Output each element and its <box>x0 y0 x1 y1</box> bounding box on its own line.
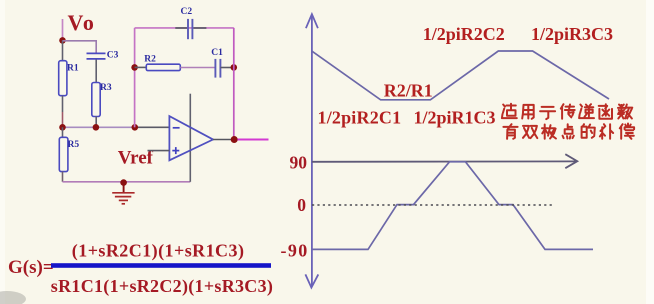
svg-text:1/2piR3C3: 1/2piR3C3 <box>531 24 613 44</box>
wire C1 to node G <box>220 67 233 69</box>
svg-text:1/2piR2C2: 1/2piR2C2 <box>423 24 505 44</box>
capacitor C3 <box>87 52 106 54</box>
svg-text:1/2piR2C1: 1/2piR2C1 <box>318 107 402 127</box>
wire R5 bottom to ground rail <box>62 172 64 182</box>
wire plus input <box>148 150 170 152</box>
phase plot horizontal axis (90 level) <box>312 154 577 168</box>
phase curve <box>312 162 593 250</box>
wire C3 to R3 <box>95 60 97 83</box>
resistor R5 <box>59 137 68 171</box>
wire inverting node line <box>63 126 136 128</box>
wire feedback left vertical <box>134 28 136 127</box>
op-amp U1 <box>169 116 213 160</box>
svg-text:90: 90 <box>290 153 308 173</box>
note text line 2 (Chinese) <box>503 124 634 139</box>
wire output right <box>238 139 269 141</box>
capacitor C2 <box>187 19 189 39</box>
svg-text:G(s)=: G(s)= <box>8 257 54 278</box>
wire node A to R1 <box>62 40 64 61</box>
node C (R3 bottom) <box>93 124 100 131</box>
wire feedback right vertical <box>233 28 235 139</box>
wire R2 to C1 <box>180 67 215 69</box>
node G (R2 row right) <box>231 64 238 71</box>
note text line 1 (Chinese) <box>502 104 632 119</box>
svg-text:R2/R1: R2/R1 <box>384 81 433 101</box>
node D (feedback left bottom) <box>132 124 139 131</box>
wire node A to C3 branch <box>63 41 97 53</box>
node E (ground junction) <box>120 179 127 186</box>
formula fraction bar <box>51 263 271 268</box>
node A (Vo) <box>59 37 66 44</box>
node B (R1/R5 junction) <box>59 124 66 131</box>
resistor R1 <box>59 61 67 96</box>
zero level dotted line <box>312 204 553 206</box>
svg-text:C3: C3 <box>107 50 119 60</box>
svg-text:R3: R3 <box>100 83 112 93</box>
wire ground rail to op-amp plus branch <box>124 181 191 183</box>
node H (output) <box>231 136 238 143</box>
wire node F to R2 <box>135 66 147 68</box>
svg-text:1/2piR1C3: 1/2piR1C3 <box>414 107 496 127</box>
resistor R2 <box>146 64 180 70</box>
wire node B to R5 <box>62 127 64 137</box>
wire feedback top (C2 branch) <box>135 27 234 29</box>
wire op-amp output <box>213 139 231 141</box>
page edge artifacts <box>0 0 5 304</box>
svg-text:R2: R2 <box>144 55 156 65</box>
svg-text:R1: R1 <box>67 63 79 73</box>
svg-text:-90: -90 <box>281 241 309 261</box>
wire op-amp power stub <box>189 94 191 182</box>
svg-text:0: 0 <box>297 195 306 215</box>
svg-text:sR1C1(1+sR2C2)(1+sR3C3): sR1C1(1+sR2C2)(1+sR3C3) <box>51 276 273 297</box>
wire R1 bottom <box>62 96 64 112</box>
wire R3 bottom <box>95 117 97 128</box>
svg-text:C2: C2 <box>181 7 193 17</box>
gain plot vertical axis <box>305 14 318 287</box>
gain curve <box>312 51 609 100</box>
svg-text:(1+sR2C1)(1+sR1C3): (1+sR2C1)(1+sR1C3) <box>72 240 245 261</box>
wire Vo stub <box>62 19 64 40</box>
capacitor C1 <box>214 59 216 78</box>
svg-text:R5: R5 <box>68 140 80 150</box>
svg-text:Vo: Vo <box>68 10 96 35</box>
ground <box>112 186 134 204</box>
resistor R3 <box>92 83 100 117</box>
svg-text:C1: C1 <box>211 48 223 58</box>
node F (R2 row left) <box>131 64 138 71</box>
